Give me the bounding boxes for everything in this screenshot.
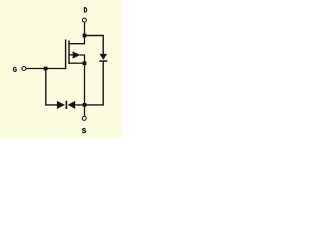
wire bottom node to S terminal <box>84 107 86 117</box>
node drain junction <box>83 34 87 38</box>
label S <box>82 128 86 133</box>
terminal S <box>82 116 86 120</box>
wire source junction to bottom node <box>84 65 86 103</box>
wire drain node to body diode branch <box>86 36 103 55</box>
node bottom source junction <box>83 103 87 107</box>
wire body arrow to source junction <box>80 55 85 62</box>
node gate junction <box>44 67 48 71</box>
ESD diode Z1 (base left, cathode at middle bar) <box>57 101 65 109</box>
wire D terminal to drain node <box>84 22 86 34</box>
node source junction <box>83 61 87 65</box>
wire body diode to source node <box>86 62 103 105</box>
terminal D <box>82 18 86 22</box>
ESD diodes common cathode bar <box>65 101 67 109</box>
mosfet Q1 drain stub <box>69 37 85 43</box>
label D <box>84 7 87 12</box>
wire G terminal to gate node <box>26 68 44 70</box>
wire gate node down to ESD diodes <box>46 70 57 105</box>
terminal G <box>22 67 26 71</box>
wire gate node to mosfet gate <box>47 68 66 70</box>
mosfet Q1 body arrow (p-channel) <box>73 51 81 58</box>
mosfet Q1 gate bar <box>65 40 67 70</box>
mosfet Q1 source stub <box>69 62 85 64</box>
body diode D1 anode/triangle <box>100 54 107 60</box>
body diode D1 cathode bar <box>99 60 107 62</box>
mosfet Q1 body stub <box>69 54 73 56</box>
mosfet Q1 channel line <box>68 41 70 65</box>
wire ESD diodes to source node <box>75 104 83 106</box>
ESD diode Z2 (apex left, base right) <box>68 101 76 109</box>
label G <box>13 67 17 72</box>
